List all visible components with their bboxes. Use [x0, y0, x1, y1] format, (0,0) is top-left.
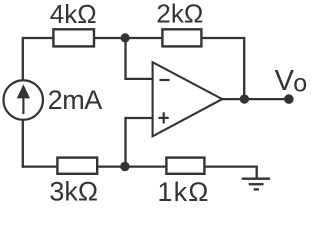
junction node A (top) — [121, 33, 130, 42]
op-amp inverting input minus sign — [159, 79, 169, 81]
svg-text:1kΩ: 1kΩ — [157, 177, 209, 207]
wire op-amp output to terminal — [222, 98, 289, 100]
wire node A down to op-amp inverting input — [126, 38, 153, 79]
junction output node — [240, 94, 249, 103]
op-amp U1 triangle — [153, 62, 223, 136]
svg-text:2kΩ: 2kΩ — [156, 0, 203, 29]
current source I1 circle — [3, 80, 43, 120]
svg-text:4kΩ: 4kΩ — [50, 0, 97, 29]
wire left vertical upper — [22, 37, 24, 81]
resistor R=1k ohm (bottom right box) — [166, 158, 204, 174]
wire 1k to ground — [205, 167, 257, 178]
svg-text:o: o — [293, 70, 307, 98]
output terminal dot — [284, 94, 294, 104]
wire top-left horizontal — [23, 37, 54, 39]
svg-text:2mA: 2mA — [48, 85, 103, 115]
junction node B (bottom) — [120, 162, 129, 171]
wire 2k to feedback corner down to output node — [202, 38, 244, 99]
wire 3k to 1k through node B — [98, 165, 168, 167]
resistor R=2k ohm (top right box) — [162, 29, 201, 46]
wire 4k to 2k through node A — [95, 37, 163, 39]
wire node B up to op-amp non-inverting input — [126, 118, 153, 167]
current source arrow (pointing up) — [22, 98, 24, 114]
op-amp non-inverting input plus sign — [159, 112, 169, 123]
svg-text:3kΩ: 3kΩ — [49, 177, 98, 207]
wire left vertical lower — [22, 120, 24, 168]
wire bottom-left horizontal — [22, 165, 58, 167]
ground — [242, 179, 270, 190]
resistor R=3k ohm (bottom left box) — [57, 158, 97, 174]
resistor R=4k ohm (top left box) — [53, 29, 94, 46]
svg-text:V: V — [275, 65, 295, 97]
